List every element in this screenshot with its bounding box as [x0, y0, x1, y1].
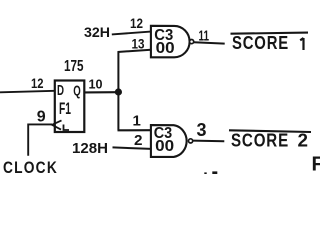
- svg-text:F1: F1: [59, 100, 71, 118]
- svg-text:12: 12: [31, 75, 44, 91]
- C3a output inversion bubble: [190, 40, 194, 44]
- SCORE 1 active-low overbar: [231, 33, 309, 34]
- C3b output inversion bubble: [189, 139, 193, 143]
- svg-text:13: 13: [132, 36, 145, 52]
- wire: C3a pin 11 output: [194, 42, 225, 43]
- svg-text:D: D: [57, 82, 64, 99]
- wire: vertical branch from pin 13 wire through node to pin 1 wire: [117, 52, 119, 131]
- svg-text:32H: 32H: [84, 24, 110, 40]
- SCORE 2 active-low overbar: [229, 130, 311, 132]
- partial text fragment tops at bottom edge: [204, 172, 206, 174]
- wire: node branch to NAND C3b pin 1: [118, 129, 151, 131]
- F1 clock input symbol: [52, 120, 62, 129]
- wire: D-input net from left edge to flip-flop F1 pin 12: [0, 91, 55, 93]
- svg-text:00: 00: [155, 138, 174, 155]
- D flip-flop F1 body (74175): [55, 81, 85, 133]
- svg-text:CLOCK: CLOCK: [3, 158, 58, 174]
- svg-text:Q: Q: [73, 83, 81, 100]
- net label digit 1 of SCORE 1: [300, 38, 303, 50]
- svg-text:128H: 128H: [72, 140, 108, 157]
- svg-text:9: 9: [37, 108, 46, 125]
- svg-text:SCORE: SCORE: [232, 33, 289, 53]
- svg-text:175: 175: [64, 58, 84, 75]
- svg-text:1: 1: [133, 113, 141, 130]
- svg-text:00: 00: [156, 40, 175, 57]
- junction node dot: [115, 88, 122, 95]
- svg-text:F: F: [312, 154, 320, 175]
- wire: branch to C3a pin 13: [118, 50, 151, 52]
- svg-text:11: 11: [199, 28, 210, 45]
- F1 clock label L: [64, 125, 70, 131]
- wire: F1 Q output (pin 10) to junction: [85, 91, 118, 93]
- wire: 32H to NAND C3a pin 12: [112, 32, 151, 35]
- svg-text:12: 12: [130, 15, 143, 31]
- svg-text:2: 2: [134, 132, 143, 149]
- wire: C3b pin 3 output: [193, 140, 225, 143]
- NAND gate C3a body (7400, top): [151, 26, 190, 58]
- wire: 128H to NAND C3b pin 2: [113, 147, 152, 149]
- NAND gate C3b body (7400, bottom): [151, 125, 187, 157]
- svg-text:2: 2: [298, 131, 309, 151]
- svg-text:SCORE: SCORE: [231, 130, 289, 150]
- wire: CLOCK net vertical riser and horizontal to F1 clock pin: [28, 124, 52, 155]
- svg-text:10: 10: [89, 77, 103, 92]
- svg-text:3: 3: [197, 120, 207, 140]
